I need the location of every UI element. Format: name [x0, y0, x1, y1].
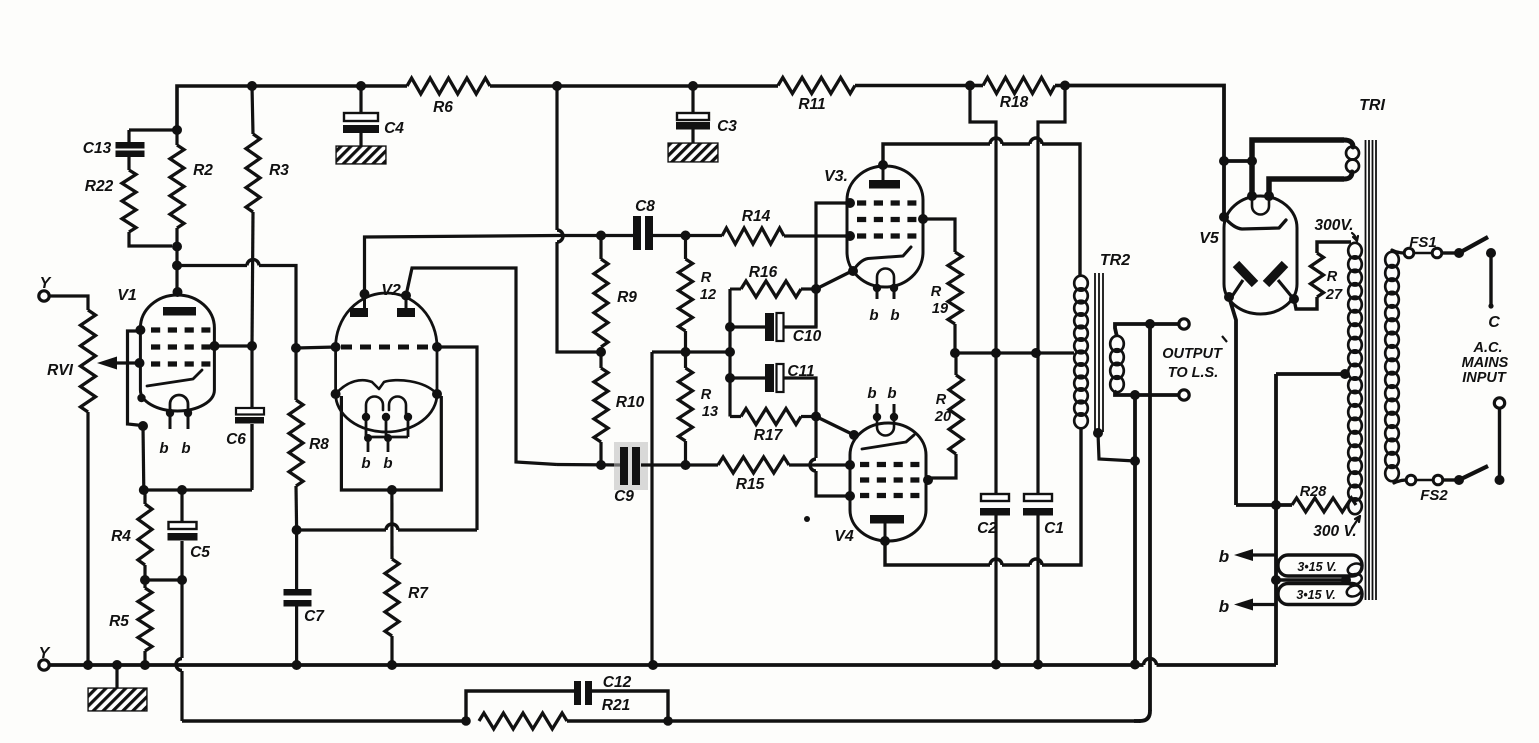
wire - top rail C3 to R11 — [693, 84, 778, 88]
resistor R10 — [594, 352, 645, 465]
svg-text:C11: C11 — [787, 363, 814, 380]
tube V1 grid dashes — [151, 330, 210, 364]
tube V3 heater pins — [873, 284, 898, 299]
tube V2 envelope — [336, 282, 437, 432]
capacitor C7 — [284, 530, 326, 665]
wire - top rail R6 to C3 — [490, 84, 693, 88]
svg-text:R4: R4 — [111, 528, 131, 545]
svg-text:19: 19 — [932, 301, 948, 317]
tube V3 grid dashes — [857, 203, 916, 236]
wire - wiper shaft — [138, 361, 142, 364]
tube V1 envelope — [117, 287, 214, 411]
label 3.15V windings — [1296, 560, 1336, 602]
svg-text:13: 13 — [702, 404, 718, 420]
tube V3 cathode line — [853, 247, 911, 271]
terminal mains lower — [1494, 398, 1504, 408]
svg-text:R22: R22 — [85, 178, 114, 195]
terminal Y input bottom — [39, 645, 51, 670]
wire - HT to V5 — [1219, 156, 1257, 222]
node - R9/R10 junction — [596, 347, 606, 357]
svg-text:RVI: RVI — [47, 362, 74, 379]
wire - bias line to R8 — [297, 524, 477, 530]
resistor R20 — [928, 353, 963, 480]
resistor R27 — [1294, 242, 1351, 309]
node - R4/C5 bottom row — [140, 575, 187, 585]
svg-text:b: b — [890, 307, 899, 324]
svg-text:R17: R17 — [754, 427, 784, 444]
svg-text:R: R — [931, 284, 942, 300]
label 300V top — [1314, 217, 1358, 241]
svg-text:INPUT: INPUT — [1462, 370, 1507, 386]
wire - R18 right bracket — [1038, 86, 1065, 495]
svg-text:300V.: 300V. — [1314, 217, 1353, 234]
svg-text:C8: C8 — [635, 198, 655, 215]
tube V2 grid dashes — [341, 345, 434, 350]
svg-text:R6: R6 — [433, 99, 453, 116]
svg-text:Y: Y — [40, 275, 52, 292]
resistor R3 — [246, 86, 289, 346]
tube V2 anode bars — [350, 308, 415, 317]
fuse FS1 — [1392, 234, 1456, 258]
fuse FS2 — [1394, 475, 1456, 504]
wire - Y to RV1 — [50, 296, 89, 310]
svg-text:FS2: FS2 — [1420, 487, 1448, 504]
transformer TR1 label — [1359, 97, 1385, 114]
svg-text:V3.: V3. — [824, 168, 848, 185]
wire - centre tap line — [955, 348, 1074, 358]
capacitor C11 — [730, 363, 816, 417]
tube V4 heater pins — [873, 404, 898, 421]
svg-text:20: 20 — [934, 409, 951, 425]
svg-text:C12: C12 — [603, 674, 632, 691]
switch blade FS2 — [1454, 466, 1505, 485]
resistor R5 — [109, 580, 152, 665]
node - V2 grid row dots — [331, 342, 442, 352]
svg-text:C7: C7 — [304, 608, 325, 625]
svg-text:b: b — [869, 307, 878, 324]
svg-text:Y: Y — [39, 645, 51, 662]
wire - bottom earth rail — [50, 659, 1277, 666]
svg-text:TR2: TR2 — [1100, 252, 1130, 269]
ground under C3 — [668, 86, 737, 162]
resistor R2 — [170, 130, 213, 247]
svg-text:R16: R16 — [749, 264, 778, 281]
node - V4 electrode dots — [845, 430, 933, 546]
node - R8/C7 junction — [292, 525, 302, 535]
potentiometer RV1 — [47, 310, 95, 665]
tube V5 heater loop — [1247, 191, 1274, 215]
wire - C9 output row — [557, 460, 621, 470]
wire - C5 feedback drop — [176, 580, 182, 721]
svg-text:V4: V4 — [834, 528, 854, 545]
transformer TR1 primary winding — [1385, 252, 1399, 481]
resistor R9 — [594, 231, 637, 353]
tube V1 top cap (grid) — [163, 307, 196, 316]
capacitor C12 branch — [466, 674, 668, 721]
wire - mains lead bottom — [1498, 408, 1501, 480]
svg-text:R28: R28 — [1300, 484, 1328, 500]
node - V3 electrode dots — [845, 160, 928, 276]
tube V2 cathode pins — [362, 413, 412, 452]
svg-text:C9: C9 — [614, 488, 634, 505]
tube V1 heater loop — [166, 395, 192, 417]
capacitor C2 — [977, 494, 1010, 664]
node - R19/R20 junction — [950, 348, 960, 358]
svg-text:R14: R14 — [742, 208, 771, 225]
svg-text:12: 12 — [700, 287, 716, 303]
svg-text:b: b — [1219, 597, 1229, 616]
transformer TR2 secondary winding — [1110, 336, 1124, 392]
node - R2/R22 junction — [172, 242, 182, 252]
svg-text:R8: R8 — [309, 436, 329, 453]
wire - coupling rail — [725, 289, 735, 417]
svg-text:MAINS: MAINS — [1462, 355, 1509, 371]
switch blade FS1 — [1454, 237, 1496, 258]
wiper arrow RV1 — [97, 357, 140, 370]
svg-text:R: R — [701, 387, 712, 403]
svg-text:V1: V1 — [117, 287, 137, 304]
svg-text:C1: C1 — [1044, 520, 1064, 537]
resistor R6 — [407, 78, 490, 116]
resistor R22 — [85, 170, 172, 246]
wire - mains lead top — [1488, 253, 1500, 331]
wire - V1 grid bracket — [128, 331, 149, 431]
stray mark — [804, 516, 810, 522]
node - V1 anode junction — [247, 341, 257, 351]
tube V4 heater loop — [877, 417, 894, 436]
svg-text:R9: R9 — [617, 289, 637, 306]
transformer TR2 core — [1095, 273, 1103, 432]
label AC mains input — [1462, 340, 1509, 386]
svg-text:R11: R11 — [798, 96, 825, 113]
svg-text:TRI: TRI — [1359, 97, 1385, 114]
svg-text:OUTPUT: OUTPUT — [1162, 346, 1223, 362]
svg-text:V2: V2 — [381, 282, 401, 299]
wire - R17 diagonal to V4 — [816, 417, 854, 436]
resistor R8 — [289, 352, 329, 528]
resistor R13 — [679, 352, 719, 465]
svg-text:C2: C2 — [977, 520, 997, 537]
node - R17/C11 junction — [811, 412, 821, 422]
svg-text:b: b — [867, 385, 876, 402]
svg-text:b: b — [383, 455, 392, 472]
wire - signal line to C8 — [557, 234, 633, 237]
wire - junction to V2 grid row — [296, 347, 336, 348]
wire - V3 grid stub — [848, 234, 850, 237]
resistor R16 — [730, 264, 816, 297]
svg-text:R10: R10 — [616, 394, 645, 411]
tube V1 cathode line — [147, 370, 202, 386]
wire - top rail R11 to R18 — [855, 84, 970, 88]
tube V2 screen box — [341, 396, 441, 490]
tube V5 anode plates — [1231, 264, 1292, 298]
resistor R4 — [111, 490, 152, 580]
tube V1 heater pins — [170, 413, 188, 429]
svg-text:TO L.S.: TO L.S. — [1168, 365, 1219, 381]
resistor R28 — [1236, 484, 1356, 512]
label b b V3 — [869, 307, 899, 324]
wire - heater winding box 2 — [1278, 584, 1362, 605]
terminal Y input top — [39, 275, 52, 301]
wire - V3 anode to R19 — [923, 219, 955, 252]
svg-text:R5: R5 — [109, 613, 129, 630]
resistor R18 — [983, 78, 1055, 112]
node - R13 bottom — [681, 460, 691, 470]
heater arrow b1 — [1219, 547, 1276, 566]
wire - V5 filament lead 2 — [1269, 172, 1352, 196]
capacitor C10 — [730, 289, 822, 345]
tube V3 heater loop — [877, 269, 894, 288]
svg-text:C4: C4 — [384, 120, 404, 137]
svg-text:R18: R18 — [1000, 94, 1029, 111]
wire - cathode row — [144, 424, 252, 490]
wire - V2 grid row right to R8 net — [437, 347, 477, 530]
terminal output lower — [1179, 390, 1189, 400]
wire - heater centre tap — [1271, 575, 1351, 585]
wire - V3 screen loop — [816, 203, 850, 327]
transformer TR1 HV winding — [1348, 243, 1362, 514]
wire - V2 cathode to R7 — [390, 490, 393, 559]
node - R16 right junction — [811, 284, 821, 294]
wire - V2 anode cap to splitter — [406, 268, 557, 465]
tube V2 cathode wings — [336, 380, 437, 394]
wire - C13/R2 top junction — [129, 125, 182, 135]
transformer TR1 core — [1366, 140, 1377, 600]
ground bottom left — [88, 660, 147, 711]
svg-text:b: b — [887, 385, 896, 402]
svg-text:C5: C5 — [190, 544, 210, 561]
svg-text:3•15 V.: 3•15 V. — [1296, 588, 1335, 602]
label b b V4 — [867, 385, 896, 402]
svg-text:C13: C13 — [83, 140, 112, 157]
node - V2 cathode bottom — [387, 485, 397, 495]
wire - V4 grid drop — [810, 417, 850, 497]
wire - V5 anode 2 drop — [1229, 297, 1236, 505]
wire - V3 anode to TR2 primary top — [883, 138, 1080, 277]
tube V3 anode bar — [869, 166, 900, 189]
svg-text:27: 27 — [1325, 287, 1343, 303]
wire - V4 anode to TR2 primary bottom — [885, 427, 1081, 565]
svg-text:R7: R7 — [408, 585, 429, 602]
wire - V1 anode to R3 line — [215, 344, 253, 347]
label 300V bottom — [1313, 516, 1360, 540]
capacitor C8 — [633, 198, 655, 250]
node - R8 top junction — [291, 343, 301, 353]
node - bottom rail dots — [83, 660, 1140, 671]
wire - V2 grid cap to C8 line — [365, 236, 558, 295]
svg-text:R: R — [936, 392, 947, 408]
node - cathode row — [139, 485, 187, 495]
node - V1 electrode dots — [135, 325, 220, 402]
wire - C9 to R15 — [641, 463, 718, 466]
svg-text:b: b — [361, 455, 370, 472]
wire - heater centre rail — [1271, 374, 1281, 665]
resistor R17 — [730, 409, 816, 445]
tube V5 envelope — [1199, 196, 1297, 314]
tube V4 envelope — [834, 423, 926, 545]
wire - core earth — [1093, 428, 1140, 466]
wire - grid line down to V1 — [172, 247, 183, 298]
wire - secondary top to output — [1115, 324, 1179, 337]
resistor R11 — [778, 78, 855, 114]
svg-text:R21: R21 — [602, 697, 630, 714]
wire - secondary bottom to output — [1115, 391, 1179, 395]
svg-text:R3: R3 — [269, 162, 289, 179]
wire - C8 to R14 — [653, 231, 722, 241]
wire - HV centre tap — [1276, 369, 1350, 379]
node - R12/R13 junction — [681, 347, 691, 357]
resistor R7 — [385, 559, 429, 665]
wire - top rail R18 junctions — [970, 84, 1065, 88]
transformer TR2 primary winding — [1074, 252, 1130, 428]
node - top rail junction dots — [247, 81, 1070, 92]
capacitor C1 — [1023, 494, 1064, 664]
svg-text:R: R — [1327, 269, 1338, 285]
svg-text:FS1: FS1 — [1409, 234, 1437, 251]
capacitor C9 — [614, 442, 648, 505]
svg-text:C3: C3 — [717, 118, 737, 135]
resistor R12 — [679, 236, 717, 353]
label output — [1162, 336, 1227, 381]
wire - V1 screen line to R8 — [177, 260, 296, 345]
svg-text:R: R — [701, 270, 712, 286]
node - output junctions — [1130, 319, 1155, 400]
wire - R16 diagonal to V3 — [816, 271, 852, 289]
resistor R15 — [718, 457, 850, 493]
wire - R18 left bracket — [970, 86, 996, 495]
capacitor C5 — [168, 490, 211, 580]
wire - top rail to V5 corner — [1065, 86, 1224, 218]
wire - B+ top rail left section — [177, 86, 407, 130]
heater arrow b2 — [1219, 597, 1276, 616]
wire - V5 filament lead 1 — [1252, 140, 1353, 196]
svg-text:b: b — [1219, 547, 1229, 566]
resistor R21 — [461, 713, 673, 729]
wire - output high to feedback — [1134, 324, 1150, 721]
tube V4 grid dashes — [860, 465, 919, 496]
svg-text:3•15 V.: 3•15 V. — [1297, 560, 1336, 574]
wire - splitter mid rail — [652, 352, 730, 665]
svg-text:C6: C6 — [226, 431, 246, 448]
label b b V1 — [159, 440, 190, 457]
wire - heater winding box 1 — [1278, 555, 1362, 576]
terminal output upper — [1179, 319, 1189, 329]
capacitor C6 — [226, 346, 264, 488]
wire - feedback line — [182, 719, 1141, 722]
node - V5 bottom pins — [1224, 292, 1299, 304]
resistor R14 — [722, 208, 848, 244]
svg-text:R2: R2 — [193, 162, 213, 179]
vertical feed from rail — [557, 86, 601, 352]
transformer TR1 heater winding — [1345, 562, 1364, 599]
svg-text:b: b — [159, 440, 168, 457]
resistor R19 — [931, 252, 962, 353]
svg-text:C: C — [1488, 314, 1500, 331]
tube V3 envelope — [824, 166, 923, 287]
label b b V2 — [361, 455, 392, 472]
svg-text:R15: R15 — [736, 476, 765, 493]
svg-text:C10: C10 — [793, 328, 822, 345]
tube V2 anode stubs — [360, 289, 412, 308]
svg-text:V5: V5 — [1199, 230, 1220, 247]
node - V2 wing dots — [331, 389, 442, 399]
capacitor C13 — [83, 130, 145, 170]
wire - output low to ground rail — [1133, 395, 1137, 664]
svg-text:A.C.: A.C. — [1473, 340, 1503, 356]
wire - V1 cathode down — [141, 426, 145, 490]
svg-text:b: b — [181, 440, 190, 457]
svg-text:300 V.: 300 V. — [1313, 523, 1356, 540]
tube V4 cathode line — [862, 435, 914, 449]
tube V4 anode bar — [870, 515, 904, 541]
ground under C4 — [336, 86, 404, 164]
tube V2 cathode loops — [366, 397, 406, 418]
transformer TR1 filament winding — [1346, 147, 1359, 173]
tube V5 cathode line — [1224, 217, 1286, 229]
